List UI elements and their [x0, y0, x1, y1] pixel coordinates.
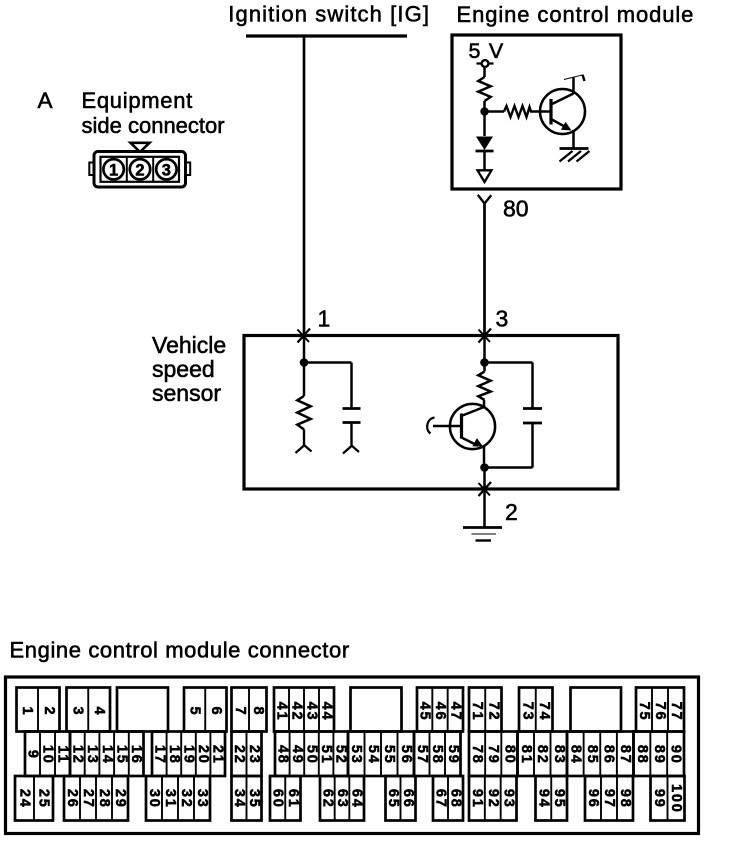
svg-text:49: 49 — [289, 745, 305, 765]
svg-text:91: 91 — [469, 789, 485, 809]
svg-text:25: 25 — [36, 789, 52, 809]
svg-text:53: 53 — [348, 745, 364, 765]
svg-text:88: 88 — [634, 745, 650, 765]
svg-text:12: 12 — [69, 745, 85, 765]
pin number 80 — [503, 196, 529, 222]
svg-text:2: 2 — [135, 161, 144, 179]
node A (R1/D1/R2 junction) — [480, 107, 488, 115]
resistor R2 (base) — [504, 106, 531, 117]
pin 2 crossing mark — [479, 482, 492, 496]
vehicle speed sensor box — [244, 336, 618, 490]
connector pins 3-4 — [67, 688, 111, 732]
svg-text:30: 30 — [146, 789, 162, 809]
svg-text:82: 82 — [534, 745, 550, 765]
wire node D to sensor pin 2 — [483, 468, 486, 490]
connector pins 12-16 — [69, 732, 144, 777]
svg-text:56: 56 — [398, 745, 414, 765]
svg-text:67: 67 — [433, 789, 449, 809]
svg-text:15: 15 — [113, 745, 129, 765]
svg-text:55: 55 — [381, 745, 397, 765]
svg-text:46: 46 — [432, 702, 448, 722]
svg-text:72: 72 — [485, 702, 501, 722]
connector pins 1-2 — [17, 688, 60, 732]
wire node A to R2 — [485, 110, 505, 113]
engine control module box U1 — [452, 35, 621, 189]
resistor R3 — [297, 367, 310, 447]
transistor Q1 — [540, 89, 585, 134]
engine control module label — [457, 2, 695, 27]
connector pins 94-95 — [535, 776, 567, 821]
wire R2 to Q1 base — [530, 110, 550, 113]
svg-text:60: 60 — [270, 789, 286, 809]
5V supply label — [469, 39, 505, 63]
svg-text:65: 65 — [385, 789, 401, 809]
svg-text:3: 3 — [162, 161, 171, 179]
svg-text:Equipment: Equipment — [82, 88, 193, 113]
connector pins 84-87 — [567, 732, 634, 777]
connector pins 73-74 — [519, 688, 553, 732]
svg-text:79: 79 — [485, 745, 501, 765]
connector pins 78-80 — [469, 732, 518, 777]
wire ignition switch to vehicle speed sensor pin 1 — [303, 36, 306, 336]
svg-text:21: 21 — [210, 745, 226, 765]
svg-text:9: 9 — [25, 750, 41, 760]
svg-text:17: 17 — [151, 745, 167, 765]
connector pins 30-33 — [146, 776, 210, 821]
svg-text:1: 1 — [109, 161, 118, 179]
svg-text:51: 51 — [318, 745, 334, 765]
wire node C to capacitor C2 — [485, 363, 533, 409]
pin 3 crossing mark — [479, 329, 492, 343]
svg-text:57: 57 — [414, 745, 430, 765]
connector blank key — [571, 688, 622, 732]
svg-text:77: 77 — [668, 702, 684, 722]
svg-text:42: 42 — [289, 702, 305, 722]
svg-text:6: 6 — [208, 707, 224, 717]
svg-text:4: 4 — [91, 707, 107, 717]
svg-text:74: 74 — [536, 702, 552, 722]
svg-text:20: 20 — [195, 745, 211, 765]
pin number 2 — [505, 499, 518, 525]
wire ECM pin 80 to sensor pin 3 — [483, 204, 486, 336]
connector pins 41-44 — [274, 688, 335, 732]
svg-text:73: 73 — [519, 702, 535, 722]
svg-text:32: 32 — [178, 789, 194, 809]
connector pins 5-6 — [184, 688, 227, 732]
svg-text:14: 14 — [99, 745, 115, 765]
svg-text:2: 2 — [41, 707, 57, 717]
Q1 collector lead — [564, 75, 585, 94]
ignition switch bus bar — [246, 34, 407, 37]
connector pins 17-21 — [151, 732, 225, 777]
connector blank key — [351, 688, 402, 732]
connector pins 22-23 — [231, 732, 262, 777]
svg-text:99: 99 — [651, 789, 667, 809]
diode D1 — [476, 112, 494, 152]
svg-text:93: 93 — [501, 789, 517, 809]
label A — [38, 88, 53, 113]
svg-text:87: 87 — [617, 745, 633, 765]
svg-text:Vehicle: Vehicle — [152, 332, 226, 358]
equipment side connector A (3-pin) — [89, 143, 190, 187]
svg-text:27: 27 — [80, 789, 96, 809]
svg-text:58: 58 — [429, 745, 445, 765]
connector pins 71-72 — [469, 688, 502, 732]
svg-text:80: 80 — [503, 196, 529, 222]
connector pins 62-64 — [319, 776, 364, 821]
wire C2 to node D — [485, 423, 533, 468]
svg-text:1: 1 — [19, 707, 35, 717]
svg-text:24: 24 — [17, 789, 33, 809]
svg-text:3: 3 — [69, 707, 85, 717]
wire D1 to ECM pin 80 — [483, 151, 486, 170]
svg-text:31: 31 — [162, 789, 178, 809]
svg-text:sensor: sensor — [152, 380, 221, 406]
svg-text:Engine control module: Engine control module — [457, 2, 695, 27]
5V terminal — [477, 60, 494, 67]
svg-text:100: 100 — [668, 784, 684, 814]
connector pins 75-77 — [636, 688, 684, 732]
svg-text:28: 28 — [96, 789, 112, 809]
connector pins 57-59 — [414, 732, 461, 777]
svg-text:19: 19 — [181, 745, 197, 765]
svg-text:80: 80 — [501, 745, 517, 765]
svg-text:96: 96 — [585, 789, 601, 809]
svg-text:16: 16 — [128, 745, 144, 765]
earth ground G1 — [463, 528, 502, 541]
svg-text:10: 10 — [40, 745, 56, 765]
equipment side connector label — [82, 88, 225, 138]
svg-text:7: 7 — [232, 707, 248, 717]
wire Q2 emitter to node D — [483, 446, 486, 468]
connector pins 9-11 — [25, 732, 71, 777]
svg-text:66: 66 — [400, 789, 416, 809]
svg-text:3: 3 — [496, 306, 509, 332]
svg-text:41: 41 — [274, 702, 290, 722]
svg-text:78: 78 — [469, 745, 485, 765]
chassis ground (Q1 emitter) — [560, 149, 590, 162]
svg-text:44: 44 — [319, 702, 335, 722]
svg-text:35: 35 — [246, 789, 262, 809]
svg-text:59: 59 — [445, 745, 461, 765]
svg-text:33: 33 — [194, 789, 210, 809]
svg-text:side connector: side connector — [82, 113, 225, 138]
svg-text:71: 71 — [469, 702, 485, 722]
ECM connector outline — [6, 677, 699, 834]
wire pin 1 to node B — [303, 336, 306, 363]
connector pins 96-98 — [585, 776, 633, 821]
connector pins 53-56 — [348, 732, 414, 777]
svg-text:Ignition switch [IG]: Ignition switch [IG] — [228, 2, 430, 27]
resistor R1 (pull-up) — [478, 67, 490, 109]
svg-text:47: 47 — [447, 702, 463, 722]
capacitor C2 — [523, 409, 542, 424]
svg-text:95: 95 — [551, 789, 567, 809]
svg-text:62: 62 — [319, 789, 335, 809]
vehicle speed sensor label — [152, 332, 226, 406]
svg-text:13: 13 — [84, 745, 100, 765]
node B — [300, 358, 309, 367]
pin number 1 — [318, 306, 331, 332]
svg-text:63: 63 — [334, 789, 350, 809]
svg-text:45: 45 — [417, 702, 433, 722]
svg-text:23: 23 — [246, 745, 262, 765]
connector pins 24-25 — [15, 776, 53, 821]
connector pins 88-90 — [634, 732, 685, 777]
svg-text:90: 90 — [668, 745, 684, 765]
Q2 base lead — [427, 418, 461, 434]
connector pins 91-93 — [469, 776, 517, 821]
svg-text:81: 81 — [518, 745, 534, 765]
svg-text:52: 52 — [333, 745, 349, 765]
svg-text:61: 61 — [285, 789, 301, 809]
transistor Q2 — [450, 400, 495, 449]
wire pin 2 to ground — [483, 489, 486, 527]
svg-text:54: 54 — [365, 745, 381, 765]
capacitor C1 — [343, 409, 361, 448]
harness connector half (pin 80) — [478, 195, 491, 204]
wire node B to capacitor C1 — [304, 363, 352, 409]
connector pins 60-61 — [270, 776, 301, 821]
svg-text:64: 64 — [349, 789, 365, 809]
svg-text:1: 1 — [318, 306, 331, 332]
connector pins 81-83 — [518, 732, 568, 777]
svg-text:43: 43 — [304, 702, 320, 722]
svg-text:68: 68 — [448, 789, 464, 809]
svg-text:11: 11 — [55, 745, 71, 764]
Q1 emitter lead — [572, 130, 575, 148]
svg-text:22: 22 — [231, 745, 247, 765]
node D — [480, 463, 489, 472]
pin 1 crossing mark — [298, 329, 311, 343]
svg-text:98: 98 — [617, 789, 633, 809]
ECM pin 80 terminal (open arrow) — [478, 170, 492, 182]
svg-text:75: 75 — [636, 702, 652, 722]
svg-text:2: 2 — [505, 499, 518, 525]
svg-text:Engine control module connecto: Engine control module connector — [10, 638, 350, 663]
svg-text:8: 8 — [250, 707, 266, 717]
svg-text:A: A — [38, 88, 53, 113]
svg-text:76: 76 — [652, 702, 668, 722]
ignition switch label — [228, 2, 430, 27]
svg-text:34: 34 — [231, 789, 247, 809]
svg-text:86: 86 — [601, 745, 617, 765]
svg-text:5: 5 — [187, 707, 203, 717]
svg-text:89: 89 — [651, 745, 667, 765]
connector pins 99-100 — [651, 776, 685, 821]
svg-text:26: 26 — [64, 789, 80, 809]
connector pins 34-35 — [231, 776, 262, 821]
svg-text:speed: speed — [152, 356, 215, 382]
connector pins 65-66 — [385, 776, 416, 821]
C1 termination — [343, 446, 359, 454]
svg-text:50: 50 — [304, 745, 320, 765]
engine control module connector label — [10, 638, 350, 663]
connector pins 26-29 — [64, 776, 128, 821]
pin number 3 — [496, 306, 509, 332]
R3 termination — [296, 445, 312, 453]
connector pins 67-68 — [433, 776, 464, 821]
node C — [480, 358, 489, 367]
connector pins 7-8 — [232, 688, 267, 732]
connector blank key — [117, 688, 168, 732]
svg-text:84: 84 — [567, 745, 583, 765]
svg-text:92: 92 — [485, 789, 501, 809]
svg-text:97: 97 — [601, 789, 617, 809]
svg-text:18: 18 — [166, 745, 182, 765]
svg-text:85: 85 — [584, 745, 600, 765]
svg-text:48: 48 — [274, 745, 290, 765]
connector pins 48-52 — [274, 732, 348, 777]
resistor R4 — [478, 367, 490, 401]
wire pin 3 to node C — [483, 336, 486, 363]
connector pins 45-47 — [417, 688, 464, 732]
svg-text:83: 83 — [551, 745, 567, 765]
svg-text:29: 29 — [112, 789, 128, 809]
svg-text:94: 94 — [535, 789, 551, 809]
